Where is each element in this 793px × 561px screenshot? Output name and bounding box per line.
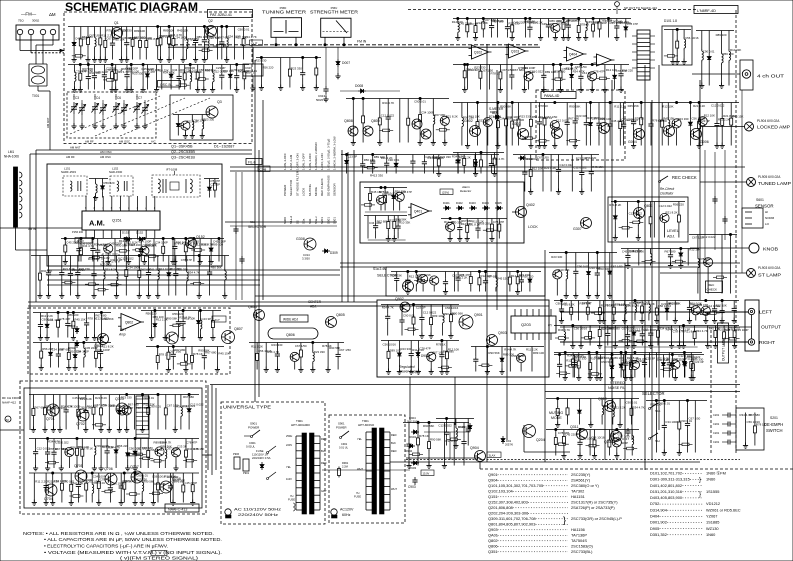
node xyxy=(189,63,191,65)
capacitor C903 xyxy=(414,477,416,480)
variable capacitor pair TC6 xyxy=(115,94,117,100)
transistor Q703 xyxy=(116,403,128,415)
resistor R802 xyxy=(387,216,389,221)
svg-text:Q204: Q204 xyxy=(536,438,545,442)
svg-text:R34 4.7K: R34 4.7K xyxy=(666,327,678,331)
transistor Q804 xyxy=(254,310,265,321)
resistor R634 xyxy=(650,202,652,216)
capacitor C689 xyxy=(57,343,59,352)
ground xyxy=(64,259,66,262)
svg-text:R34 4.7K: R34 4.7K xyxy=(504,348,516,352)
svg-text:Re-Check: Re-Check xyxy=(660,187,675,191)
ground xyxy=(408,463,410,466)
diode D840 xyxy=(620,353,622,362)
diode D007 xyxy=(337,59,339,62)
ground xyxy=(130,87,132,90)
resistor R830 xyxy=(698,103,700,121)
transistor Q702 xyxy=(77,409,89,421)
knob connector xyxy=(749,243,759,253)
coil xyxy=(103,256,105,269)
resistor R440 xyxy=(657,326,659,329)
svg-text:0.01 UL: 0.01 UL xyxy=(339,446,349,450)
resistor R916 xyxy=(212,311,214,320)
svg-text:R12 10K: R12 10K xyxy=(452,20,463,24)
resistor R218 xyxy=(438,155,440,158)
transistor Q902 xyxy=(400,302,410,312)
resistor R516 xyxy=(93,395,95,406)
node xyxy=(588,351,590,353)
svg-text:AM IN: AM IN xyxy=(28,227,36,231)
ground xyxy=(430,369,432,372)
svg-text:C45 220P: C45 220P xyxy=(141,67,154,71)
coil xyxy=(186,27,188,39)
capacitor C638 xyxy=(596,253,598,271)
mic connector xyxy=(5,416,11,422)
resistor link xyxy=(585,337,592,340)
ground xyxy=(126,57,128,60)
antenna coil loop xyxy=(19,172,22,178)
resistor R138 xyxy=(678,401,680,421)
ground xyxy=(517,289,519,292)
diode D944 xyxy=(395,155,397,161)
ground xyxy=(143,259,145,262)
transistor Q493 xyxy=(104,244,113,253)
vertical bus xyxy=(486,300,488,462)
ground xyxy=(174,427,176,430)
transistor Q569 xyxy=(395,192,404,201)
svg-text:C23 3P: C23 3P xyxy=(646,356,656,360)
ground xyxy=(580,87,582,90)
diode D130 xyxy=(208,179,210,185)
resistor link xyxy=(539,140,546,143)
ground xyxy=(276,367,278,370)
coax shield wire xyxy=(168,44,540,46)
ground xyxy=(734,343,736,346)
resistor R932 xyxy=(123,473,125,481)
node xyxy=(302,56,304,58)
ground xyxy=(579,453,581,456)
diode D801 xyxy=(76,326,78,329)
svg-text:R45 15K: R45 15K xyxy=(628,104,639,108)
wire xyxy=(690,247,749,249)
FM detector board xyxy=(28,308,230,374)
wire xyxy=(174,395,176,430)
resistor link xyxy=(194,282,201,285)
label OSC-BL xyxy=(158,81,181,88)
ground xyxy=(459,236,461,239)
ground xyxy=(523,87,525,90)
ground xyxy=(100,365,102,368)
ground xyxy=(210,259,212,262)
svg-text:D402: D402 xyxy=(456,201,463,205)
capacitor C580 xyxy=(209,256,211,270)
transistor Q903 xyxy=(487,335,498,346)
IC pin xyxy=(102,196,104,211)
coil xyxy=(415,272,417,274)
coil xyxy=(157,256,159,269)
capacitor C187 xyxy=(67,313,69,321)
wire xyxy=(15,227,17,250)
ground xyxy=(578,35,580,38)
svg-text:G004: G004 xyxy=(628,140,637,144)
ground xyxy=(560,87,562,90)
ground xyxy=(212,87,214,90)
capacitor C493 xyxy=(561,301,563,307)
bus wire xyxy=(480,461,700,463)
ground xyxy=(174,259,176,262)
svg-text:Q804: Q804 xyxy=(248,305,257,309)
resistor R940 xyxy=(77,395,79,408)
transistor Q705 xyxy=(75,470,87,482)
svg-text:S1a-d: S1a-d xyxy=(289,216,293,224)
capacitor C754 xyxy=(276,343,278,352)
svg-text:C67 1/50: C67 1/50 xyxy=(537,156,549,160)
svg-text:R12 10K: R12 10K xyxy=(633,249,644,253)
wire xyxy=(108,395,110,430)
diode D805 xyxy=(46,313,48,322)
svg-text:C23 3P: C23 3P xyxy=(177,445,187,449)
resistor R259 xyxy=(40,343,42,350)
resistor R289 xyxy=(474,155,476,158)
coil xyxy=(461,103,463,117)
resistor link xyxy=(558,443,565,446)
capacitor C915 xyxy=(243,64,263,76)
svg-text:C34 100P: C34 100P xyxy=(665,420,678,424)
transistor Q105 xyxy=(421,129,431,139)
svg-text:R89 100: R89 100 xyxy=(184,66,195,70)
ground xyxy=(672,59,674,62)
capacitor C852 xyxy=(362,155,364,161)
svg-text:3LAX: 3LAX xyxy=(489,454,496,458)
bus wire xyxy=(340,266,700,268)
wire xyxy=(572,326,574,346)
capacitor C269 xyxy=(53,439,55,450)
resistor link xyxy=(569,365,576,368)
capacitor C568 xyxy=(401,305,403,318)
node xyxy=(572,324,574,326)
node xyxy=(466,63,468,65)
node xyxy=(680,247,682,249)
ground xyxy=(419,140,421,143)
lamp TUNED xyxy=(747,178,756,187)
ground xyxy=(733,318,735,321)
antenna coil loop xyxy=(19,196,22,202)
bus wire xyxy=(390,461,480,463)
svg-text:300Ω: 300Ω xyxy=(32,19,40,23)
wire xyxy=(29,394,199,396)
resistor R661 xyxy=(379,99,381,117)
resistor R808 xyxy=(68,343,70,351)
resistor R171 xyxy=(99,27,101,37)
svg-text:7: 7 xyxy=(102,207,104,210)
svg-text:R56 220: R56 220 xyxy=(585,156,596,160)
ground xyxy=(678,450,680,453)
svg-text:NHRF-2503: NHRF-2503 xyxy=(61,170,76,174)
node xyxy=(218,237,220,239)
capacitor C519 xyxy=(85,395,87,408)
resistor link xyxy=(627,447,634,450)
wire xyxy=(596,353,598,378)
wire xyxy=(549,252,617,254)
ground xyxy=(497,143,499,146)
ground xyxy=(94,335,96,338)
node xyxy=(682,324,684,326)
vertical bus xyxy=(506,300,508,440)
svg-text:R45 15K: R45 15K xyxy=(218,351,229,355)
svg-text:Q807: Q807 xyxy=(234,327,243,331)
transistor Q809 xyxy=(363,126,373,136)
IC pin xyxy=(550,333,552,340)
svg-text:Q801: Q801 xyxy=(644,204,653,208)
node xyxy=(560,299,562,301)
svg-text:D152: D152 xyxy=(136,231,144,235)
resistor R559 xyxy=(518,103,520,118)
node xyxy=(511,101,513,103)
svg-text:RED: RED xyxy=(391,449,397,453)
capacitor C370 xyxy=(177,311,179,319)
node xyxy=(655,399,657,401)
ground xyxy=(120,500,122,503)
wire xyxy=(61,238,224,240)
svg-text:R23 330: R23 330 xyxy=(314,350,325,354)
universal psu enclosure xyxy=(221,402,325,524)
ground xyxy=(157,293,159,296)
capacitor C404 xyxy=(175,256,177,271)
resistor R413 xyxy=(100,395,102,407)
coil xyxy=(565,253,567,269)
wire xyxy=(367,216,369,239)
svg-text:S601: S601 xyxy=(333,217,337,224)
node xyxy=(362,97,364,99)
voltage legend box xyxy=(151,551,167,556)
svg-text:PAT-52BJ-41: PAT-52BJ-41 xyxy=(210,13,232,17)
resistor link xyxy=(667,55,674,58)
capacitor C655 xyxy=(78,239,80,246)
svg-text:4 ch OUT: 4 ch OUT xyxy=(757,74,784,79)
IC pin xyxy=(119,196,121,211)
ceramic filter Q806 xyxy=(268,328,318,339)
ground xyxy=(594,453,596,456)
diode D807 xyxy=(115,439,117,448)
transistor Q237 xyxy=(612,438,621,447)
capacitor C852 xyxy=(524,155,526,170)
resistor link xyxy=(675,260,682,263)
svg-text:C12 0.022: C12 0.022 xyxy=(55,440,69,444)
node xyxy=(614,200,616,202)
ground xyxy=(745,443,747,446)
wire xyxy=(432,155,434,174)
capacitor C514 xyxy=(714,301,716,306)
resistor link xyxy=(367,166,374,169)
node xyxy=(449,217,451,219)
resistor R282 xyxy=(243,27,245,38)
node xyxy=(384,186,386,188)
ground xyxy=(457,35,459,38)
svg-text:R12 10K: R12 10K xyxy=(662,105,673,109)
resistor R798 xyxy=(608,430,610,439)
svg-text:DE-EMPHASIS: DE-EMPHASIS xyxy=(326,175,330,196)
coil xyxy=(601,399,603,405)
AC plug xyxy=(225,509,231,515)
svg-text:C23 3P: C23 3P xyxy=(106,67,116,71)
resistor R582 xyxy=(619,103,621,121)
capacitor C163 xyxy=(241,256,243,259)
diode D477 xyxy=(170,65,172,72)
diode D802 xyxy=(76,340,78,343)
bus wire xyxy=(47,274,340,276)
svg-text:C34 100P: C34 100P xyxy=(76,350,89,354)
bus wire xyxy=(340,262,740,264)
svg-text:C12 0.022: C12 0.022 xyxy=(711,104,725,108)
svg-text:R45 15K: R45 15K xyxy=(524,20,535,24)
wire xyxy=(683,326,685,346)
resistor R994 xyxy=(450,305,452,314)
svg-text:P156 200: P156 200 xyxy=(72,230,84,234)
svg-text:R34 4.7K: R34 4.7K xyxy=(188,271,200,275)
detector block xyxy=(662,26,692,65)
resistor link xyxy=(664,368,671,371)
wire xyxy=(638,249,640,266)
node xyxy=(157,393,159,395)
wire xyxy=(172,473,174,503)
AM IC Q151 xyxy=(82,211,160,230)
auto-lock block xyxy=(360,182,524,243)
resistor R623 xyxy=(509,272,511,276)
diode D555 xyxy=(146,65,148,72)
svg-text:5: 5 xyxy=(119,207,121,210)
wire xyxy=(68,26,249,28)
vertical bus xyxy=(624,263,626,460)
resistor link xyxy=(92,256,99,259)
capacitor C507 xyxy=(172,347,174,352)
resistor R621 xyxy=(640,103,642,117)
capacitor C163 xyxy=(47,439,49,450)
svg-text:C78 47P: C78 47P xyxy=(186,440,197,444)
capacitor C698 xyxy=(543,65,545,73)
resistor R494 xyxy=(369,188,371,192)
bus wire xyxy=(406,457,480,459)
svg-text:PL905 6V0.02A: PL905 6V0.02A xyxy=(758,175,781,179)
ground xyxy=(48,293,50,296)
capacitor C818 xyxy=(459,219,461,225)
svg-text:R21 8.2K: R21 8.2K xyxy=(105,268,117,272)
capacitor C585 xyxy=(423,155,425,159)
resistor R943 xyxy=(52,395,54,408)
node xyxy=(671,353,673,355)
svg-text:KNOB: KNOB xyxy=(763,247,778,252)
svg-text:S201: S201 xyxy=(770,416,778,420)
ground xyxy=(142,427,144,430)
svg-text:R45 15K: R45 15K xyxy=(74,317,85,321)
ground xyxy=(280,85,282,88)
vertical bus xyxy=(611,80,613,440)
capacitor C685 xyxy=(182,311,184,319)
transistor G004 xyxy=(634,129,645,140)
svg-text:9: 9 xyxy=(85,207,87,210)
resistor link xyxy=(729,337,736,340)
IC pin xyxy=(544,333,546,340)
ground xyxy=(100,335,102,338)
svg-text:Q904: Q904 xyxy=(470,446,479,450)
svg-text:C201: C201 xyxy=(713,431,720,435)
ground xyxy=(40,335,42,338)
svg-text:R90 56K: R90 56K xyxy=(143,479,154,483)
diode D342 xyxy=(134,439,136,449)
wire xyxy=(707,326,709,346)
resistor R961 xyxy=(85,473,87,482)
capacitor C940 xyxy=(396,272,398,276)
svg-text:AC120V: AC120V xyxy=(340,508,354,512)
wire xyxy=(453,152,504,154)
IF transformer IFT-1008 xyxy=(152,175,200,197)
diode D309 xyxy=(322,250,325,252)
transistor Q183 xyxy=(122,406,131,415)
resistor R935 xyxy=(95,343,97,350)
coil xyxy=(312,343,314,352)
output jack R xyxy=(748,339,754,345)
resistor R311 xyxy=(185,239,187,244)
svg-text:250H: 250H xyxy=(286,434,292,438)
op-amp Q405 xyxy=(597,54,612,66)
wire xyxy=(391,271,541,273)
node xyxy=(134,472,136,474)
resistor R581 xyxy=(104,27,106,39)
diode D437 xyxy=(609,253,611,269)
wire xyxy=(590,399,592,425)
svg-text:2.2M: 2.2M xyxy=(342,465,348,469)
resistor R295 xyxy=(560,65,562,70)
resistor R643 xyxy=(479,65,481,70)
wire xyxy=(204,178,219,180)
wire xyxy=(156,65,158,90)
coil xyxy=(585,19,587,21)
output level box xyxy=(718,323,729,363)
node xyxy=(637,200,639,202)
svg-text:15.0V: 15.0V xyxy=(423,472,430,476)
ground xyxy=(603,318,605,321)
wire xyxy=(89,178,108,180)
svg-text:ST LAMP: ST LAMP xyxy=(758,273,781,278)
ground xyxy=(543,87,545,90)
svg-text:R78 1K: R78 1K xyxy=(193,352,203,356)
svg-text:RF CH FROM: RF CH FROM xyxy=(2,396,21,400)
resistor R950 xyxy=(407,99,409,117)
resistor R412 xyxy=(162,239,164,245)
diode D340 xyxy=(518,157,521,159)
ground xyxy=(475,35,477,38)
svg-text:R56 220: R56 220 xyxy=(522,275,533,279)
ground xyxy=(216,367,218,370)
wire xyxy=(696,30,734,32)
ground xyxy=(184,133,186,136)
vertical bus xyxy=(724,150,726,240)
svg-text:Q704: Q704 xyxy=(44,497,53,501)
diode D176 xyxy=(210,239,212,246)
node xyxy=(484,270,486,272)
resistor link xyxy=(589,444,596,447)
svg-text:R90 56K: R90 56K xyxy=(500,104,511,108)
svg-text:1: 1 xyxy=(154,207,156,210)
switch S1b xyxy=(650,403,658,408)
svg-text:R78 1K: R78 1K xyxy=(379,190,389,194)
ground xyxy=(172,259,174,262)
svg-text:WIDE ADJ: WIDE ADJ xyxy=(283,318,298,322)
svg-text:WHT: WHT xyxy=(357,467,363,471)
label PANA-4D box xyxy=(541,92,576,99)
antenna terminal xyxy=(28,29,33,34)
svg-text:R56 220: R56 220 xyxy=(262,66,273,70)
svg-text:C23 3P: C23 3P xyxy=(700,119,710,123)
